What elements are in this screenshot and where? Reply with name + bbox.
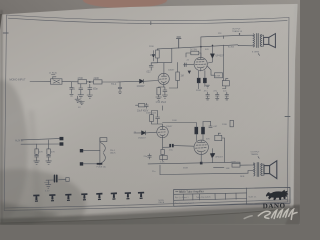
drop wire ch2 x48 xyxy=(48,140,50,149)
frame left border xyxy=(4,15,6,211)
PSU comp right xyxy=(66,178,69,182)
V3 plate rail components: resistor R25 xyxy=(150,115,154,122)
wire brace a xyxy=(83,150,100,152)
PSU cap dark xyxy=(55,175,57,182)
terminal square brace b (dark) xyxy=(80,162,83,165)
jack TP8 xyxy=(138,192,144,199)
V1 grid dashes xyxy=(160,78,167,80)
polarity dot T1 xyxy=(239,33,240,34)
svg-text:16R: 16R xyxy=(226,168,230,170)
resistor R21 xyxy=(35,149,38,154)
heater tap symbol above row xyxy=(45,181,50,183)
title block outline xyxy=(174,187,291,206)
svg-text:47K: 47K xyxy=(39,152,43,154)
wire grid run to V1 xyxy=(118,80,139,83)
frame right border xyxy=(287,18,289,203)
transformer T2 secondary coil xyxy=(261,164,262,176)
svg-text:TRANS 5K: TRANS 5K xyxy=(232,30,243,33)
connector bar vertical xyxy=(99,138,101,165)
wire V1 plate up xyxy=(151,62,172,73)
B+ feed arrow ch1 xyxy=(176,37,181,48)
wire D1 to V1 xyxy=(144,80,159,83)
resistor R5 plate (vertical) xyxy=(156,50,160,58)
resistor R2 xyxy=(78,80,87,84)
svg-text:B+305: B+305 xyxy=(228,47,235,49)
wire coupling to V4 xyxy=(174,145,194,148)
wires above V3 xyxy=(152,106,163,126)
coupling cap Ca (dark) below V2 xyxy=(197,78,200,83)
bottom-left corner shadow xyxy=(0,202,60,225)
filter cap C7 with ground xyxy=(206,92,210,100)
terminal square ch2 b (dark) xyxy=(60,142,64,145)
diode D23 (dark) left on rail xyxy=(212,153,215,156)
svg-text:220K: 220K xyxy=(94,77,100,80)
wire rail end stub xyxy=(238,44,239,47)
ground small below caps xyxy=(206,85,210,88)
V4 cathode arc xyxy=(197,151,205,163)
svg-text:J1 RCA: J1 RCA xyxy=(49,71,57,74)
reddish object top edge xyxy=(83,0,167,8)
title block row line 2 xyxy=(174,199,247,201)
soft shadow along bottom of paper xyxy=(0,199,294,223)
wire cathode node right xyxy=(163,146,170,148)
junction node n1 xyxy=(89,81,91,83)
svg-text:470R: 470R xyxy=(231,161,237,163)
diode D2 (dark) at rail xyxy=(211,54,215,58)
resistor R8 grid V2 xyxy=(191,51,199,55)
wire cathode to R6 xyxy=(159,86,164,97)
connector brace curves xyxy=(101,143,106,164)
triode V1 envelope xyxy=(158,73,169,84)
resistor R29 vertical top right xyxy=(230,120,233,127)
bypass cap C4 xyxy=(163,87,167,95)
bottom-left paper shading xyxy=(0,169,86,240)
potentiometer VR1 xyxy=(51,79,63,84)
wire R5 top xyxy=(151,49,157,63)
jack TP5 xyxy=(96,193,102,200)
resistor R30 before T2 xyxy=(232,163,240,167)
title mark dash xyxy=(176,190,179,192)
cap C26 left xyxy=(148,154,152,159)
ground near C5 xyxy=(75,96,80,102)
V2 plate bar xyxy=(197,57,204,59)
V3 cathode xyxy=(160,135,165,139)
junction rail node2 xyxy=(212,45,214,47)
svg-text:PH-1: PH-1 xyxy=(110,150,116,152)
wiper VR1 xyxy=(54,80,60,83)
zone tick top center xyxy=(150,22,152,25)
capacitor C6 coupling xyxy=(185,63,187,67)
terminal square brace a (dark) xyxy=(80,149,83,152)
junction rail node xyxy=(200,46,202,48)
V3 grid dashes xyxy=(158,131,165,133)
svg-text:1K 5%: 1K 5% xyxy=(190,49,197,51)
wire R7 xyxy=(169,62,177,88)
wire V2 plate up to OT lead xyxy=(201,35,242,57)
wire V3 cathode down xyxy=(162,139,164,161)
screen resistor R9 box xyxy=(215,73,223,78)
svg-text:TRANS: TRANS xyxy=(251,153,259,156)
box below V3 xyxy=(160,156,167,160)
V1 plate xyxy=(162,73,167,76)
capacitor C2b mid stub xyxy=(118,82,122,93)
title block col lines xyxy=(184,188,247,204)
resistor R4 box xyxy=(138,104,145,107)
svg-text:100K: 100K xyxy=(150,55,156,57)
coupling cap Cb (dark) below V2 xyxy=(203,78,206,83)
svg-text:REV A: REV A xyxy=(159,201,165,204)
diode D0 (dark) near R5 xyxy=(152,54,156,58)
svg-text:220K: 220K xyxy=(149,46,154,48)
T1 primary lead top xyxy=(239,35,254,46)
capacitor C0 input xyxy=(70,82,74,96)
V1 cathode xyxy=(161,82,166,87)
ground ch2 b xyxy=(46,161,52,165)
svg-text:8B80 Tube Amplifier: 8B80 Tube Amplifier xyxy=(179,189,204,193)
terminal square ch2 a (dark) xyxy=(60,137,64,140)
svg-text:47K: 47K xyxy=(51,152,55,154)
wire R8 xyxy=(186,53,201,57)
small comp right of caps xyxy=(209,121,212,127)
svg-text:Rev 1.0 Sheet 1: Rev 1.0 Sheet 1 xyxy=(175,196,189,199)
wire caps tops left xyxy=(163,121,211,122)
wire brace b xyxy=(83,163,100,165)
ground C1 xyxy=(78,93,84,99)
frame inner bottom border xyxy=(5,200,288,208)
junction node V4 cathode xyxy=(200,162,203,165)
pentode V4 envelope xyxy=(194,140,208,154)
coupling cap Cc (dark) above V4 xyxy=(195,127,198,134)
transformer T2 primary coil xyxy=(254,163,255,176)
V3 plate xyxy=(160,126,165,129)
short label wire mid xyxy=(214,166,225,168)
dark arrow mark between stages xyxy=(188,71,191,74)
svg-text:12AX7: 12AX7 xyxy=(166,125,173,128)
wires caps to tube xyxy=(199,71,205,89)
capacitor C21 xyxy=(35,154,39,161)
svg-text:Dwn Dano Eng Appr A: Dwn Dano Eng Appr A xyxy=(175,202,195,205)
resistor R7 (vertical, right of V1) xyxy=(176,72,180,81)
svg-text:UF4007: UF4007 xyxy=(215,157,224,159)
svg-text:JACK: JACK xyxy=(110,152,116,155)
connector J1 xyxy=(52,75,57,80)
V4 plate bar xyxy=(198,140,206,142)
drop wire ch2 x36 xyxy=(36,144,38,149)
title block row line 1 xyxy=(174,193,247,194)
speaker SP2 frame xyxy=(264,166,270,174)
wires T1 secondary to speaker xyxy=(261,35,263,46)
lower wire ch2 xyxy=(160,173,248,174)
transformer T1 primary coil xyxy=(253,34,254,47)
wire R3 to V1 grid xyxy=(102,81,118,83)
rail ch2 xyxy=(148,162,238,164)
svg-text:UF4007: UF4007 xyxy=(216,56,225,58)
T1 core xyxy=(257,34,259,48)
wire VR1 to R2 xyxy=(62,81,78,83)
wire VR2 down xyxy=(223,86,226,89)
diode D22 (dark) below right of V4 xyxy=(210,154,214,158)
ground mid (below ch1 caps area) xyxy=(79,102,84,105)
DANO logo dog xyxy=(266,190,288,200)
coupling marks (dark) to V4 grid xyxy=(169,144,171,147)
coupling wire V1 to V2 grid xyxy=(184,63,194,66)
capacitor C1 xyxy=(79,84,83,93)
svg-text:12AX7: 12AX7 xyxy=(168,69,175,72)
triode V3 envelope xyxy=(157,126,168,137)
jack TP6 xyxy=(111,192,117,199)
V2 screen dashes xyxy=(196,61,204,63)
ground C4 xyxy=(162,95,167,98)
pentode V2 envelope xyxy=(194,57,207,70)
frame inner top border xyxy=(8,18,287,23)
tick below label T2 xyxy=(258,157,259,159)
wire J1 to VR1 xyxy=(30,80,51,82)
svg-text:220K: 220K xyxy=(222,124,228,126)
PSU wire heater xyxy=(46,179,66,182)
frame outer top border xyxy=(3,15,290,211)
jack TP3 xyxy=(65,194,71,201)
connector top box xyxy=(100,138,107,142)
jack TP4 xyxy=(81,193,87,200)
coupling cap Cd (dark) above V4 xyxy=(202,127,205,134)
zone tick left border xyxy=(3,32,8,34)
wire to plate node xyxy=(171,48,173,62)
B+ rail ch1 xyxy=(179,45,238,48)
ground C2 ch1 with label xyxy=(87,93,93,99)
plate rail node runs xyxy=(157,48,179,49)
right lower corner dark xyxy=(285,205,300,226)
svg-text:100p: 100p xyxy=(93,89,99,91)
resistor R3 xyxy=(94,80,103,84)
diode D21 grid (dark) xyxy=(142,131,146,135)
resistor R22 xyxy=(47,149,50,154)
svg-text:NFB: NFB xyxy=(240,176,245,178)
crease shadow xyxy=(28,110,44,225)
zone tick right border xyxy=(285,116,290,118)
svg-text:1M: 1M xyxy=(181,76,184,78)
wire D22 xyxy=(211,149,213,163)
svg-text:470R: 470R xyxy=(215,75,221,77)
heater jack row (8 T symbols) xyxy=(33,192,144,202)
wire lower connects xyxy=(160,165,254,175)
wire R9 xyxy=(207,66,214,75)
trim pot VR22 xyxy=(215,135,222,140)
wire D2 xyxy=(208,46,213,64)
wire grid V3 xyxy=(134,131,157,134)
svg-text:Scale 1:1: Scale 1:1 xyxy=(248,196,256,198)
wire input ch2 top xyxy=(21,139,60,140)
svg-text:470K: 470K xyxy=(78,77,84,80)
ground ch2 a xyxy=(34,161,40,165)
capacitor C5 xyxy=(145,103,149,108)
dark left edge strip xyxy=(0,14,2,30)
svg-text:TO A: TO A xyxy=(111,83,117,86)
NFB vertical wire xyxy=(223,45,225,81)
wires T2 secondary to speaker xyxy=(262,164,264,175)
V2 grid dashes xyxy=(196,63,207,66)
left photo edge darkening xyxy=(0,10,3,225)
capacitor C3 plate tap xyxy=(149,63,153,70)
resistor R4 with cap C5 lower-left of V1 xyxy=(136,104,139,106)
svg-text:MONO INPUT: MONO INPUT xyxy=(10,79,26,82)
svg-text:6.3V: 6.3V xyxy=(45,190,50,192)
svg-text:100K: 100K xyxy=(172,120,177,122)
svg-text:FUSE 2A: FUSE 2A xyxy=(97,166,107,169)
bottom dark band below paper xyxy=(0,208,300,225)
wire pot to NFB xyxy=(222,138,225,162)
V2 cathode arc xyxy=(197,67,204,71)
capacitor C2 xyxy=(88,84,92,93)
svg-text:8 OHM: 8 OHM xyxy=(252,52,259,54)
speaker SP1 cone xyxy=(269,34,276,48)
watermark signature xyxy=(244,209,297,219)
svg-text:.022: .022 xyxy=(146,72,151,74)
title block extra col lines xyxy=(200,193,237,200)
transformer T1 secondary coil xyxy=(260,35,261,47)
svg-text:1.5K 25uF: 1.5K 25uF xyxy=(156,102,167,104)
jack TP2 xyxy=(49,194,55,201)
wires into T2 xyxy=(238,162,254,165)
wiper VR22 xyxy=(218,133,220,135)
V3 cathode resistor R26 xyxy=(161,149,164,154)
ground V1 cathode xyxy=(156,97,162,100)
jack TP7 xyxy=(125,192,131,199)
wire R2 to R3 xyxy=(87,81,94,83)
speaker SP2 cone xyxy=(270,161,277,179)
T2 core xyxy=(257,163,259,177)
V4 screen dashes xyxy=(196,144,206,146)
svg-text:330R: 330R xyxy=(183,167,188,169)
right edge shading xyxy=(290,4,298,207)
schematic ink xyxy=(3,15,290,211)
filter cap C9 with ground xyxy=(225,92,229,100)
tick below label SP1 xyxy=(258,54,259,56)
filter cap C8 with ground xyxy=(215,92,219,100)
svg-text:1N4007: 1N4007 xyxy=(137,86,146,88)
wires caps to V4 xyxy=(196,122,203,141)
PSU ground xyxy=(46,180,51,188)
capacitor C22 xyxy=(47,154,51,161)
speaker SP1 frame xyxy=(264,37,269,44)
svg-text:1N4007: 1N4007 xyxy=(138,138,146,140)
tick on OT lead xyxy=(223,36,225,39)
svg-text:Tube Amp 2x6V6: Tube Amp 2x6V6 xyxy=(196,196,210,199)
cathode resistor R6 xyxy=(157,88,160,95)
frame outer bottom border xyxy=(4,202,287,211)
svg-text:PRI: PRI xyxy=(218,33,222,35)
wiper VR2 xyxy=(226,78,228,80)
jack TP1 xyxy=(33,195,39,202)
diode D1 grid stopper (dark) xyxy=(140,79,144,83)
wire input ch2 bottom xyxy=(21,143,60,145)
V4 grid dashes xyxy=(195,147,206,150)
capacitor C25 xyxy=(156,115,160,121)
trim pot VR2 xyxy=(222,81,229,86)
PSU bar (dark) xyxy=(97,163,103,165)
svg-text:330R: 330R xyxy=(196,90,201,92)
